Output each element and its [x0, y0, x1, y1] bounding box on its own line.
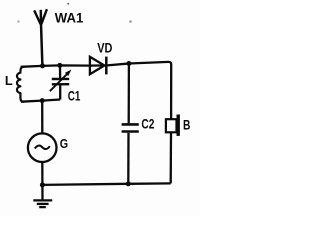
- capacitor C1 (variable): [50, 65, 69, 99]
- wire G branch: [41, 101, 43, 134]
- svg-text:L: L: [5, 73, 13, 88]
- wire C2 branch top: [128, 64, 130, 124]
- earphone B: [166, 119, 177, 132]
- svg-text:C1: C1: [68, 89, 81, 104]
- wire tank bottom rail: [21, 100, 60, 102]
- generator G: [28, 133, 57, 162]
- svg-text:B: B: [183, 116, 190, 132]
- node tank-bottom/G junction: [40, 98, 45, 103]
- node antenna/top-rail junction: [40, 63, 45, 68]
- node C1/top-rail junction: [57, 63, 62, 68]
- node C2/bottom-rail junction: [126, 181, 131, 186]
- speck noise: [17, 20, 19, 22]
- node bottom-rail/ground junction: [40, 182, 45, 187]
- svg-text:G: G: [60, 137, 68, 151]
- capacitor C2: [122, 124, 139, 131]
- wire C2 branch bottom: [127, 133, 129, 184]
- ground: [33, 185, 52, 207]
- svg-text:VD: VD: [97, 41, 112, 56]
- wire B to bottom rail: [170, 132, 173, 183]
- inductor L: [17, 67, 25, 102]
- wire bottom rail: [42, 183, 170, 185]
- svg-text:WA1: WA1: [55, 10, 84, 26]
- wire G to bottom rail: [41, 162, 43, 185]
- node C2/top-rail junction: [126, 61, 131, 66]
- antenna WA1: [34, 9, 47, 65]
- svg-text:C2: C2: [141, 116, 154, 131]
- diode VD: [90, 57, 105, 74]
- wire top rail: [21, 62, 172, 119]
